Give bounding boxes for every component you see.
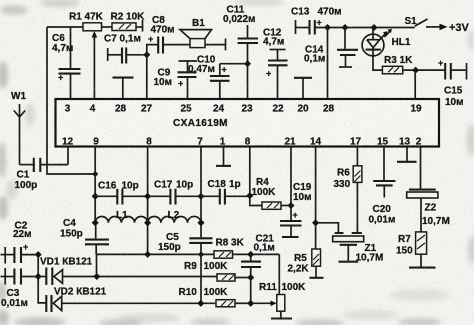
capacitor C2 [1,221,39,264]
wire HL1 to R3 [373,59,382,70]
node junction C5/rail [198,251,204,257]
wire pin14 junction to Z1 top [316,223,339,233]
wire pin 9 line [94,147,96,223]
node junction R8/C21 [247,251,254,258]
wire junction down to R10 row [250,278,252,304]
node junction C21/R9 [247,274,254,281]
capacitor C5 [158,232,213,254]
wire pin 7 line upper [200,147,202,239]
node junction C11/C10/pin23 [244,60,251,67]
pin numbers bottom row [62,137,422,148]
wire R2 to terminal [136,26,143,28]
node junction pin9/C16 [92,193,99,200]
node junction rail/pin26 [324,24,331,31]
wire junction down to pin 27 [146,55,148,99]
pin numbers top row [65,104,422,115]
ground pin 28 top common symbol [113,78,134,99]
wire R1 wiper to pin 4 [92,31,98,99]
ground pin 13 common symbol [397,147,417,162]
node junction C7/C8/pin27 [143,51,150,58]
inductor L2 [148,210,201,223]
wire junction to C10 [220,63,248,65]
wire R3 to junction [403,69,446,71]
node junction pin8b/C18/R4 [246,192,253,199]
resistor R8 [214,238,245,259]
crystal Z1 10.7M [333,233,384,264]
capacitor C17 [148,180,201,205]
resistor R4 [252,177,282,209]
wire pin 8 line [147,147,149,255]
capacitor C12 [263,28,288,100]
op-amp U1 CXA1619M box [56,99,440,147]
resistor R7 [396,232,436,268]
capacitor C19 [280,182,312,237]
resistor R3 [382,55,413,74]
speaker B1 [180,18,226,50]
wire tank bottom rail [96,253,214,255]
wire R6 down to Z1 [356,182,358,232]
wire top supply rail right [315,27,415,29]
wire C1 up to pin 12 [67,147,69,165]
capacitor C4 [60,218,109,254]
node junction pin7-line/VD2 wire [197,300,204,307]
wire junction down to pin 23 [247,64,249,99]
wire pin 8b line [249,147,251,196]
wire corner down to R11 [278,254,280,294]
wire C4 rail down to VD1 row [96,254,98,276]
wire junction down to R4 [250,196,262,206]
capacitor C8 [148,15,190,54]
node junction R3/C15/pin19 [412,67,419,74]
capacitor C11 [223,5,258,64]
resistor R2 [111,12,146,31]
node junction pin8/rail [144,251,151,258]
resistor R5 [288,249,324,278]
ground pin 1 common symbol [216,147,231,166]
resistor R1 (potentiometer body) [69,12,104,31]
capacitor C20 [369,147,396,226]
capacitor C13 [291,7,342,35]
node junction pin7/C17/C18 [197,193,204,200]
node terminal bar after R2 [142,20,144,32]
ground pin 20 top common symbol [294,78,312,99]
antenna W1 [11,91,26,165]
wire top supply rail left [47,26,83,28]
capacitor C18 [201,179,250,205]
node junction vertical/VD1 [35,273,42,280]
wire junction up to C8 [147,45,158,55]
capacitor C14 [304,28,358,68]
node junction pin8/L1/L2 [144,219,151,226]
wire pin 21 line [290,147,292,206]
wire pin7 line lower to VD2 row [200,254,202,303]
node junction pin7/L2 [197,219,204,226]
node junction R4/pin21/C19 [287,202,294,209]
node junction R10/R11 wiper [247,300,254,307]
wire varicap feed vertical [38,255,46,303]
wire R10 to junction [235,302,251,304]
LED HL1 [362,28,411,59]
capacitor C16 [95,181,147,205]
resistor R9 [184,261,235,281]
wire R1 to R2 [102,26,113,28]
node junction pin8/C16/C17 [144,193,151,200]
resistor R10 [179,287,236,307]
wire R9 to junction [235,277,251,279]
capacitor C1 [15,158,69,191]
wire R8 to corner [233,253,280,255]
capacitor C6 [52,27,81,99]
node junction C2/C3 vertical [35,251,42,258]
varicap VD1 KB121 [38,257,217,286]
wire pin 19 line [414,70,416,99]
node +3V supply arrow [426,22,470,34]
wire R4 to pin 21 line [281,205,291,207]
crystal Z2 10.7M [407,190,450,232]
node junction rail/HL1 [370,24,377,31]
node junction pin9/L1/C4 [92,219,99,226]
node junction rail/pin9 [92,171,98,177]
wire pin 26 line [327,28,329,100]
wire pin 14 line [315,147,317,250]
varicap VD2 KB121 [46,287,216,313]
wire left rail down from top rail [47,27,95,174]
potentiometer R11 wiper arrow [251,301,277,307]
node junction C4-line/VD1 wire [93,273,100,280]
node junction pin14/Z1 [312,219,319,226]
potentiometer R11 [259,282,306,319]
node junction rail/C14 [341,24,348,31]
capacitor C7 [104,34,147,64]
resistor R6 [334,147,362,191]
capacitor C9 [154,61,198,99]
capacitor C10 [188,55,230,100]
inductor L1 [95,210,147,223]
wire pin 2 line [420,147,422,190]
switch S1 [405,16,428,27]
capacitor C21 [241,234,275,278]
capacitor C15 [438,58,467,108]
capacitor C3 [1,268,39,309]
